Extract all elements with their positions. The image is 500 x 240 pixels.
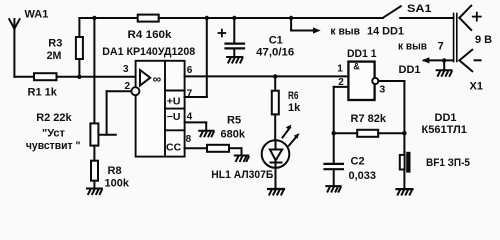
svg-text:8: 8	[186, 134, 192, 145]
logic gate DD1.1 box	[348, 62, 374, 100]
svg-text:к выв: к выв	[398, 40, 427, 52]
X1 bottom contact	[459, 50, 472, 71]
svg-text:BF1 ЗП-5: BF1 ЗП-5	[426, 157, 470, 169]
svg-text:3: 3	[379, 83, 385, 95]
svg-text:R4 160k: R4 160k	[128, 29, 173, 41]
capacitor C1	[226, 18, 245, 56]
gate output bubble	[372, 78, 378, 84]
ground at pin4	[199, 131, 213, 137]
svg-text:C1: C1	[269, 35, 283, 47]
svg-text:R7 82k: R7 82k	[351, 113, 387, 125]
antenna WA1	[9, 19, 19, 77]
svg-text:DD1 1: DD1 1	[347, 48, 377, 60]
LED arrow 1	[283, 125, 292, 138]
wire pin4 to ground	[185, 122, 207, 130]
svg-text:9 В: 9 В	[475, 34, 492, 46]
node R3 bottom junction	[77, 75, 81, 79]
svg-text:2: 2	[125, 81, 131, 92]
resistor R7	[357, 130, 378, 137]
svg-text:DD1: DD1	[435, 112, 457, 124]
svg-text:0,033: 0,033	[349, 170, 377, 182]
ground below LED	[268, 189, 284, 195]
resistor R3	[76, 18, 83, 77]
svg-text:DA1 КР140УД1208: DA1 КР140УД1208	[102, 46, 195, 58]
svg-text:∞: ∞	[153, 72, 162, 86]
wire X1 bottom to DD1 pin7 arrow	[424, 59, 454, 61]
svg-text:2M: 2M	[47, 50, 62, 62]
X1 top contact	[459, 6, 471, 30]
svg-text:R3: R3	[48, 37, 62, 49]
svg-text:К561ТЛ1: К561ТЛ1	[422, 124, 467, 136]
wire arrow to pin14 DD1	[291, 18, 321, 34]
svg-text:4: 4	[187, 111, 193, 122]
ground at X1	[437, 70, 452, 76]
svg-text:14 DD1: 14 DD1	[367, 25, 404, 37]
svg-text:R6: R6	[288, 90, 299, 102]
svg-text:DD1: DD1	[399, 64, 421, 76]
wire pin6 output to DD1 pin1	[185, 75, 349, 77]
svg-text:CC: CC	[166, 142, 182, 154]
wire pin8 to R5	[185, 147, 207, 149]
wire R5 to ground	[229, 148, 242, 155]
connector X1 double line	[454, 14, 457, 62]
svg-text:3: 3	[123, 64, 129, 75]
svg-text:"Уст: "Уст	[42, 128, 65, 140]
node rail arrow branch junction	[289, 16, 293, 20]
svg-text:100k: 100k	[105, 177, 130, 189]
ground below C1	[227, 57, 242, 63]
svg-text:X1: X1	[470, 80, 483, 92]
resistor R8	[91, 161, 98, 181]
node rail pin7 junction	[205, 16, 209, 20]
node X1 ground junction	[442, 58, 446, 62]
C1 plus sign	[219, 30, 226, 37]
svg-text:1: 1	[337, 64, 343, 75]
wire top rail left	[79, 17, 137, 19]
node R7 output junction	[402, 131, 406, 135]
svg-text:C2: C2	[351, 155, 365, 167]
svg-text:47,0/16: 47,0/16	[256, 47, 294, 59]
node C2 R7 junction	[332, 131, 336, 135]
wire gate output	[378, 81, 404, 152]
op-amp inversion bubble pin2	[131, 87, 139, 95]
wire gate pin2	[334, 87, 349, 163]
svg-text:7: 7	[438, 40, 444, 52]
LED arrow 2	[289, 133, 300, 146]
svg-text:+U: +U	[167, 96, 181, 108]
wire pin7 to +9V rail	[185, 18, 207, 97]
wire top rail right of R4	[159, 17, 383, 19]
svg-text:R2 22k: R2 22k	[36, 112, 72, 124]
svg-text:1k: 1k	[288, 102, 301, 114]
resistor R1	[34, 73, 57, 80]
ground below BF1	[397, 189, 413, 195]
wire R7 left	[334, 132, 358, 134]
wire R2 to R8	[93, 146, 95, 161]
node rail C1 junction	[232, 16, 236, 20]
op-amp U1 DA1 box	[136, 61, 185, 157]
svg-text:680k: 680k	[221, 129, 246, 141]
svg-text:HL1 АЛ307Б: HL1 АЛ307Б	[211, 169, 273, 181]
wire R7 right	[378, 132, 404, 134]
svg-text:чувствит ": чувствит "	[26, 140, 81, 152]
resistor R6	[272, 76, 279, 140]
resistor R5	[207, 145, 229, 152]
resistor R2 (trimmer)	[90, 91, 130, 145]
ground at R5	[235, 156, 249, 162]
wire R8 to ground	[93, 181, 95, 188]
battery minus	[475, 59, 481, 61]
node rail-R2 junction	[92, 16, 96, 20]
wire antenna to R1	[14, 76, 34, 78]
svg-text:WA1: WA1	[25, 8, 49, 20]
svg-text:R1 1k: R1 1k	[28, 86, 58, 98]
svg-text:6: 6	[187, 65, 193, 76]
node R6 top junction	[273, 74, 277, 78]
svg-text:SA1: SA1	[407, 3, 432, 15]
svg-text:−U: −U	[167, 111, 181, 123]
wire rail to R2	[93, 18, 95, 123]
LED HL1	[262, 140, 290, 188]
battery plus	[473, 13, 481, 21]
switch SA1	[383, 6, 454, 18]
piezo BF1	[400, 152, 411, 189]
capacitor C2	[325, 164, 343, 186]
svg-text:R8: R8	[108, 165, 122, 177]
svg-text:к выв: к выв	[330, 25, 360, 37]
wire R1 to DA1 pin3	[57, 76, 136, 78]
op-amp triangle	[140, 70, 150, 86]
ground below C2	[326, 186, 340, 192]
resistor R4	[138, 15, 159, 22]
arrowhead to pin7	[422, 57, 430, 63]
svg-text:R5: R5	[227, 114, 241, 126]
ground below R8	[87, 189, 102, 195]
svg-text:&: &	[353, 61, 360, 71]
wire to ground at X1	[443, 60, 445, 69]
